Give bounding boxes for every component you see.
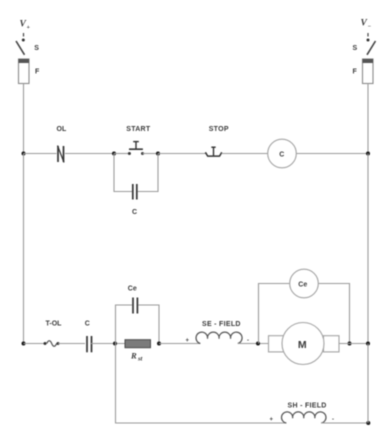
node junction bottom right [366, 421, 370, 425]
coil Ce circle [290, 269, 319, 298]
fuse F1 cap [19, 59, 30, 63]
overload contact OL [58, 146, 65, 163]
svg-text:F: F [353, 69, 358, 76]
wire bottom row left [115, 422, 286, 424]
contact Ce [133, 298, 137, 314]
pushbutton STOP (NC) [205, 147, 221, 156]
svg-text:Ce: Ce [128, 286, 137, 293]
svg-text:C: C [279, 151, 284, 158]
inductor SE-FIELD [196, 332, 242, 343]
svg-text:V: V [20, 20, 27, 30]
coil C circle [268, 139, 297, 168]
wire SE field to motor junction [238, 343, 269, 345]
node junction motor right [348, 342, 352, 346]
motor M right brush [324, 336, 340, 352]
fuse F1 body [19, 59, 30, 84]
wire START to junction [143, 153, 159, 155]
svg-text:-: - [332, 417, 334, 423]
svg-text:M: M [298, 339, 307, 351]
node junction motor left [256, 342, 260, 346]
wire left drop from fuse [23, 84, 25, 154]
wire left rail mid [23, 154, 25, 344]
inductor SH-FIELD [281, 412, 326, 423]
wire Ce bypass branch [116, 305, 133, 344]
switch S2 blade [367, 41, 376, 55]
node junction start-branch right [156, 152, 160, 156]
node junction start-branch left [112, 152, 116, 156]
svg-text:SH - FIELD: SH - FIELD [288, 403, 327, 410]
wire shunt branch drop [115, 344, 117, 424]
node junction right rail / power row [366, 342, 370, 346]
svg-text:R: R [130, 351, 137, 361]
wire OL to START [65, 153, 114, 155]
svg-text:+: + [186, 338, 190, 344]
resistor Rst [125, 340, 151, 348]
node junction right rail / control row [366, 152, 370, 156]
wire T-OL to contact C [58, 343, 85, 345]
svg-text:S: S [353, 45, 358, 52]
motor M left brush [269, 336, 285, 352]
svg-text:STOP: STOP [209, 126, 229, 133]
wire junction to STOP [158, 153, 206, 155]
svg-text:START: START [126, 126, 151, 133]
contact C (seal-in) [133, 184, 137, 200]
svg-text:st: st [137, 356, 143, 363]
fuse F2 body [363, 59, 374, 84]
wire to START contact [114, 153, 129, 155]
node junction Rst left [113, 342, 117, 346]
wire right rail mid [367, 154, 369, 344]
wire STOP to coil C [222, 153, 268, 155]
switch S2 terminal dot [367, 39, 370, 42]
wire motor to right rail [339, 343, 368, 345]
svg-text:F: F [35, 69, 40, 76]
wire power row to T-OL [24, 343, 46, 345]
wire coil C to right rail [296, 153, 368, 155]
wire right drop from fuse [367, 84, 369, 154]
svg-text:S: S [34, 45, 39, 52]
switch S1 blade [16, 41, 25, 55]
node junction left rail / control row [22, 152, 26, 156]
svg-text:T-OL: T-OL [46, 321, 63, 328]
wire control row: left rail to OL [24, 153, 57, 155]
svg-text:+: + [270, 417, 274, 423]
pushbutton START (NO) [129, 142, 143, 150]
wire bottom row right [321, 422, 368, 424]
switch S1 terminal dot [22, 39, 25, 42]
wire Rst to SE field [159, 343, 200, 345]
wire Ce coil branch [259, 284, 290, 344]
svg-text:+: + [27, 25, 31, 31]
wire right rail lower [367, 344, 369, 424]
svg-text:C: C [132, 209, 137, 216]
svg-text:SE - FIELD: SE - FIELD [202, 321, 241, 328]
motor M armature circle [282, 323, 324, 365]
switch S1 terminal tick [23, 33, 25, 37]
node junction Rst right [157, 342, 161, 346]
wire seal-in branch [114, 154, 132, 192]
svg-text:OL: OL [57, 126, 67, 133]
svg-text:−: − [368, 24, 372, 30]
switch S2 terminal tick [367, 33, 369, 37]
svg-text:C: C [85, 321, 90, 328]
svg-text:V: V [361, 19, 368, 29]
fuse F2 cap [363, 59, 374, 63]
svg-text:Ce: Ce [298, 282, 307, 289]
contact C (power) [87, 336, 92, 352]
thermal overload T-OL element [44, 342, 47, 345]
wire contact C to Rst junction [91, 343, 125, 345]
node junction left rail / power row [22, 342, 26, 346]
